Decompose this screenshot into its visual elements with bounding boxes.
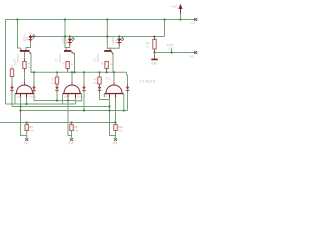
junction rail122 R10 <box>114 121 116 123</box>
opto sensor OK3 <box>105 85 124 98</box>
wire LED1 to T1 base <box>26 43 31 51</box>
diode D2R <box>82 85 86 92</box>
label LED3 <box>111 37 118 44</box>
label R8 <box>29 125 34 133</box>
resistor R1 <box>23 62 26 69</box>
wire VCC top rail <box>5 19 196 21</box>
wire D1R down to net100 <box>33 91 35 100</box>
svg-text:R2: R2 <box>62 62 66 66</box>
wire corner x164 rail1-rail2 <box>164 20 166 37</box>
wire R9 top lead <box>71 123 73 125</box>
svg-text:N$3: N$3 <box>68 141 73 145</box>
wire R2 to bus73 <box>67 69 69 73</box>
svg-text:BC557: BC557 <box>16 53 20 62</box>
junction bus72 R3 <box>106 71 108 73</box>
wire IC1P stub <box>171 49 173 53</box>
label LED2 <box>62 37 69 44</box>
junction bus72 apex2 <box>71 71 73 73</box>
label flag N$2 <box>24 141 29 145</box>
LED LED1 <box>29 34 36 43</box>
wire R3b top feed <box>99 72 101 77</box>
label R4 <box>11 62 18 68</box>
wire T3 emitter down <box>112 54 114 72</box>
svg-text:red: red <box>64 39 68 43</box>
wire T1 to R1 <box>24 52 26 62</box>
label IC1 value <box>140 80 156 84</box>
junction rail2 feed3 <box>106 35 108 37</box>
wire R8 bottom lead <box>26 131 28 138</box>
svg-text:VCC: VCC <box>168 46 174 50</box>
label R2 <box>62 62 74 66</box>
wire OK2 left leg long <box>68 94 72 136</box>
net flag N$3 <box>70 138 73 141</box>
label net OUT <box>189 54 194 58</box>
wire R3 to bus73 <box>106 69 108 73</box>
resistor R2 <box>66 62 69 69</box>
wire D1R top feed <box>33 72 35 86</box>
svg-text:OK3: OK3 <box>102 93 108 97</box>
diode D1R <box>32 85 36 92</box>
wire LED3 to T3 base <box>107 43 119 49</box>
svg-text:N$4: N$4 <box>112 141 117 145</box>
wire OK3 right leg down <box>115 94 117 123</box>
svg-text:R5: R5 <box>51 77 55 81</box>
junction bus110 D2R <box>83 109 85 111</box>
supply +5V arrow <box>178 4 182 20</box>
label R9 <box>74 125 79 133</box>
wire OK2 right base pin <box>76 94 82 101</box>
label +5V <box>171 5 178 9</box>
svg-text:10k: 10k <box>13 62 17 67</box>
wire R1b to D1L <box>11 77 13 87</box>
label net VCC <box>190 21 196 25</box>
wire R10 top lead <box>115 123 117 125</box>
svg-text:VCC: VCC <box>190 21 196 25</box>
wire LED3 hang <box>118 37 120 39</box>
svg-text:GND: GND <box>151 61 159 65</box>
label LED1 <box>22 35 29 42</box>
resistor R6 <box>98 77 101 84</box>
junction y100 stack2 <box>56 99 58 101</box>
svg-text:OK1: OK1 <box>16 95 22 99</box>
wire R1 to OK1 apex <box>24 69 26 86</box>
diode D3L <box>98 85 102 92</box>
svg-text:BC557: BC557 <box>96 53 100 62</box>
svg-text:1k: 1k <box>71 62 74 66</box>
net flag VCC right <box>194 18 197 21</box>
junction bus106 leg3L <box>108 105 110 107</box>
junction bus72 R5 <box>56 71 58 73</box>
label GND <box>151 61 159 65</box>
resistor R8 <box>25 125 28 131</box>
net flag N$2 <box>25 138 28 141</box>
LED LED3 <box>117 37 124 46</box>
resistor R7 <box>153 40 156 50</box>
wire OK1 left base pin <box>14 94 16 104</box>
label OK2 <box>64 95 85 99</box>
label R1 <box>28 62 32 69</box>
resistor R4 <box>10 69 13 77</box>
junction rail2 LED2 <box>69 35 71 37</box>
junction rail122 R8 <box>26 121 28 123</box>
wire LED2 hang <box>69 37 71 39</box>
wire net y100 D1R to D2L <box>34 100 76 102</box>
junction rail1 x164 <box>163 18 165 20</box>
wire bus y110 <box>21 110 128 112</box>
junction bus72 D1R <box>33 71 35 73</box>
wire feed T3 collector <box>107 20 110 51</box>
net flag OUT right <box>194 51 197 54</box>
svg-text:R6: R6 <box>94 77 98 81</box>
label R10 <box>118 125 124 133</box>
svg-text:R3: R3 <box>101 62 105 66</box>
resistor R5 <box>55 77 58 84</box>
svg-text:10k: 10k <box>118 128 123 132</box>
wire R10 bottom lead <box>115 131 117 138</box>
wire OK1 left leg long <box>21 94 27 136</box>
wire OK3 left base pin <box>104 94 106 97</box>
wire bottom rail y122 <box>0 122 117 124</box>
svg-text:red: red <box>25 37 29 41</box>
resistor R3 <box>105 62 108 69</box>
wire OK2 left base pin <box>62 94 64 104</box>
resistor R10 <box>114 125 117 131</box>
LED LED2 <box>68 37 75 46</box>
svg-text:IC1 4011N: IC1 4011N <box>140 80 156 84</box>
label R3 <box>101 62 113 66</box>
junction bus72 D2R <box>83 71 85 73</box>
svg-text:CNY70: CNY70 <box>76 96 84 99</box>
wire R7 bottom lead <box>154 49 156 59</box>
wire LED2 to T2 base <box>66 43 70 51</box>
svg-text:BC557: BC557 <box>58 53 62 62</box>
wire R8 top lead <box>26 123 28 125</box>
wire D3L stub <box>99 84 101 87</box>
diode D3R <box>126 85 130 92</box>
svg-text:+5V: +5V <box>171 5 178 9</box>
junction rail122 R9 <box>70 121 72 123</box>
supply GND symbol <box>151 59 157 61</box>
junction rail2 LED3 <box>118 35 120 37</box>
svg-text:red: red <box>114 39 118 43</box>
wire apex OK2 drop <box>71 72 73 85</box>
wire D1L down to bus106 <box>11 91 13 107</box>
wire left border vertical <box>5 20 7 105</box>
wire R5 stub and lead <box>56 72 58 87</box>
junction rail1 x66 <box>64 18 66 20</box>
diode D2L <box>55 85 59 92</box>
wire T1 emitter to bus <box>31 54 34 72</box>
label R5 <box>51 77 56 84</box>
junction node R7 out <box>153 51 155 53</box>
transistor T2 <box>64 50 75 54</box>
wire net y52 to flag <box>155 52 196 54</box>
wire feed T2 collector <box>65 20 66 48</box>
label T3 <box>93 53 100 62</box>
diode D1L <box>10 85 14 92</box>
wire OK1 right leg down <box>26 94 28 104</box>
svg-text:OK3: OK3 <box>106 78 112 81</box>
label OK3 <box>102 78 112 98</box>
wire bus110 corner up to D3R <box>127 91 129 111</box>
wire OK3 right base pin <box>123 94 125 111</box>
label OK1 <box>16 95 37 99</box>
wire OK2 right leg down <box>75 94 77 104</box>
junction rail2 feed2 <box>64 35 66 37</box>
label flag N$3 <box>68 141 73 145</box>
junction rail1 x17 <box>16 18 18 20</box>
wire OK3 left leg long <box>110 94 116 136</box>
svg-text:10k: 10k <box>51 81 56 85</box>
transistor T1 <box>20 50 32 54</box>
junction y104 leg1R <box>25 103 27 105</box>
junction y100 leg2L <box>67 99 69 101</box>
junction net52 IC1P <box>170 51 172 53</box>
junction bus110 OK3 pin <box>123 109 125 111</box>
svg-text:10k: 10k <box>29 128 34 132</box>
wire bus y106 <box>12 106 110 108</box>
wire second rail y36 <box>31 36 165 38</box>
svg-text:N$2: N$2 <box>24 141 29 145</box>
junction rail1 x180 <box>179 18 181 20</box>
wire feed T1 collector <box>18 20 22 51</box>
junction bus110 leg1L <box>19 109 21 111</box>
transistor T3 <box>104 50 113 54</box>
wire D2R bottom to bus110 <box>83 91 85 110</box>
svg-text:10k: 10k <box>94 81 99 85</box>
junction bus110 leg3L <box>108 109 110 111</box>
junction bus72 emitter2 <box>73 71 75 73</box>
wire R9 bottom lead <box>71 131 73 138</box>
svg-text:N$1: N$1 <box>189 54 194 58</box>
label IC1P <box>167 43 174 50</box>
wire net y99 to leg3L <box>100 99 110 101</box>
svg-text:1k: 1k <box>146 44 150 48</box>
label R6 <box>94 77 99 84</box>
label T1 <box>13 53 20 62</box>
wire D3R top feed <box>127 72 128 86</box>
wire horizontal y104 <box>6 103 76 105</box>
label R7 <box>146 41 150 49</box>
junction bus72 apex3 <box>113 71 115 73</box>
svg-text:CNY70: CNY70 <box>29 96 37 99</box>
junction rail2 R7 <box>153 35 155 37</box>
wire D3L down <box>99 91 101 99</box>
opto sensor OK2 <box>63 85 82 98</box>
wire D2R top feed <box>83 72 85 86</box>
wire T2 emitter down <box>74 54 76 72</box>
wire R7 top lead <box>154 37 156 40</box>
wire R1b stub up <box>11 68 13 70</box>
wire apex OK3 drop <box>113 72 115 85</box>
svg-text:10k: 10k <box>74 128 79 132</box>
junction bus72 R3b <box>98 71 100 73</box>
wire mid bus y72 <box>31 71 127 73</box>
svg-text:OK2: OK2 <box>64 95 70 99</box>
resistor R9 <box>70 125 73 131</box>
net flag N$4 <box>114 138 117 141</box>
label flag N$4 <box>112 141 117 145</box>
opto sensor OK1 <box>15 85 34 98</box>
wire D2L bottom up <box>56 91 58 100</box>
junction bus106 leg1L <box>19 105 21 107</box>
junction rail1 x102 <box>106 18 108 20</box>
label T2 <box>55 53 62 62</box>
